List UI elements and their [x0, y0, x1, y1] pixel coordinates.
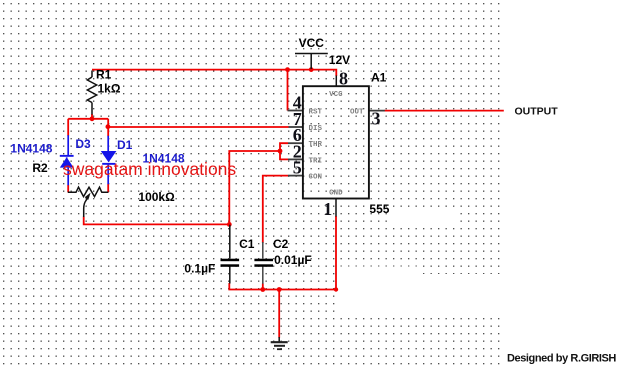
svg-text:THR: THR	[309, 141, 323, 149]
svg-text:OUT: OUT	[350, 109, 364, 117]
svg-text:C2: C2	[273, 237, 289, 251]
svg-text:R1: R1	[96, 68, 112, 82]
svg-text:D3: D3	[75, 137, 91, 151]
svg-text:0.01µF: 0.01µF	[274, 253, 312, 267]
svg-text:1kΩ: 1kΩ	[98, 81, 121, 95]
svg-text:555: 555	[369, 202, 389, 216]
svg-text:1: 1	[323, 199, 332, 219]
svg-text:8: 8	[339, 68, 348, 88]
svg-text:1N4148: 1N4148	[10, 142, 52, 156]
svg-text:Designed by R.GIRISH: Designed by R.GIRISH	[507, 353, 616, 365]
svg-text:R2: R2	[32, 161, 48, 175]
svg-text:CON: CON	[309, 174, 323, 182]
svg-text:C1: C1	[239, 237, 255, 251]
svg-text:12V: 12V	[329, 53, 350, 67]
svg-text:5: 5	[293, 158, 302, 178]
svg-text:VCC: VCC	[329, 91, 343, 99]
svg-text:TRI: TRI	[309, 157, 323, 165]
svg-text:D1: D1	[117, 138, 133, 152]
svg-text:DIS: DIS	[309, 125, 323, 133]
svg-text:RST: RST	[309, 109, 323, 117]
svg-text:GND: GND	[329, 190, 343, 198]
svg-text:3: 3	[372, 109, 381, 129]
svg-text:swagatam innovations: swagatam innovations	[63, 159, 236, 179]
svg-text:A1: A1	[371, 71, 387, 85]
svg-text:100kΩ: 100kΩ	[138, 190, 175, 204]
svg-text:0.1µF: 0.1µF	[184, 262, 215, 276]
svg-text:VCC: VCC	[299, 36, 325, 50]
svg-text:OUTPUT: OUTPUT	[515, 106, 559, 118]
